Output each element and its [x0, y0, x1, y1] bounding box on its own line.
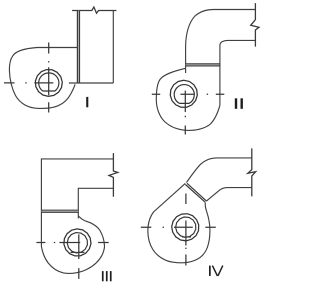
fan III hub outer circle: [64, 229, 91, 256]
fan III duct break line with zigzag: [109, 153, 118, 197]
fan I scroll volute outline: [9, 48, 75, 109]
fan II scroll right straight side: [219, 64, 221, 106]
fan IV label "IV": [209, 266, 211, 276]
fan IV duct outer wall (45deg elbow): [186, 158, 251, 183]
fan I scroll top line: [37, 47, 77, 49]
fan IV duct break line with zigzag: [248, 148, 256, 196]
fan IV discharge flange (double diagonal line): [185, 183, 206, 202]
fan II horizontal centerline: [152, 93, 225, 95]
fan III duct outer wall (sharp elbow): [41, 159, 113, 247]
fan IV duct inner wall: [207, 188, 252, 201]
fan II scroll volute outline: [156, 68, 220, 130]
fan IV hub outer circle: [172, 214, 199, 241]
fan III vertical centerline: [78, 234, 80, 279]
fan I duct left wall (double line): [77, 11, 79, 84]
fan II hub outer circle: [170, 80, 197, 107]
fan III horizontal centerline: [36, 242, 108, 244]
fan III discharge flange (double line): [41, 210, 78, 212]
fan II label "II": [235, 98, 243, 109]
fan I label "I": [86, 97, 88, 107]
fan I hub inner circle: [39, 73, 59, 91]
fan IV hub chord line: [182, 236, 191, 238]
fan IV horizontal centerline: [141, 226, 216, 228]
fan II hub inner circle: [174, 85, 194, 104]
fan II discharge flange (double line): [186, 64, 220, 66]
fan I duct wall gap shading: [77, 11, 79, 84]
fan III scroll volute outline: [41, 216, 104, 273]
fan I horizontal centerline: [4, 82, 53, 84]
fan II vertical centerline: [184, 91, 186, 135]
fan II flange gap shading: [186, 64, 220, 66]
fan III label "III": [102, 271, 112, 281]
fan II duct break line with zigzag: [251, 3, 259, 47]
fan IV vertical centerline: [185, 194, 187, 266]
fan III duct inner wall: [78, 188, 113, 218]
fan III flange gap shading: [41, 210, 78, 212]
fan II elbow outer wall: [186, 10, 256, 74]
fan I duct bottom line: [69, 82, 113, 84]
fan IV hub inner circle: [176, 217, 196, 237]
fan I duct break line with zigzag: [72, 7, 116, 13]
fan I vertical centerline: [48, 43, 50, 113]
fan I hub outer circle: [35, 70, 62, 97]
fan III hub chord line: [71, 251, 85, 253]
fan II elbow inner wall: [220, 40, 256, 66]
fan I duct right wall: [112, 11, 114, 84]
fan IV scroll volute outline: [148, 183, 210, 262]
fan III hub inner circle: [67, 233, 87, 253]
